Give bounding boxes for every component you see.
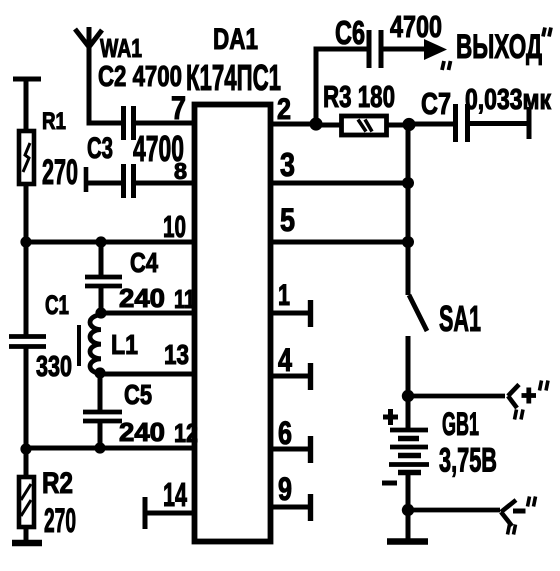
wire pin 13: [100, 372, 196, 377]
wire R2 to ground terminal: [24, 527, 29, 542]
wire branch pin10 to C4: [99, 242, 104, 278]
pin 4 terminator bar: [308, 363, 313, 390]
svg-text:L1: L1: [111, 329, 138, 360]
wire pin 4: [270, 374, 310, 379]
C7 end terminator bar: [527, 107, 532, 139]
capacitor C7: [456, 104, 468, 142]
capacitor C4: [85, 277, 122, 286]
left rail top terminal: [13, 77, 41, 82]
junction C4/L1/pin11: [95, 307, 106, 318]
wire L1 to C5: [98, 373, 103, 413]
svg-text:3: 3: [280, 146, 295, 183]
wire C1 to bottom junction: [24, 348, 29, 479]
svg-text:C3: C3: [87, 132, 113, 165]
wire pin 10 row: [24, 240, 196, 245]
svg-text:R1: R1: [42, 108, 66, 135]
wire tick to C3: [86, 181, 122, 186]
svg-text:ВЫХОД: ВЫХОД: [456, 28, 542, 66]
svg-text:9: 9: [278, 471, 292, 507]
svg-text:0,033мк: 0,033мк: [465, 84, 551, 116]
wire pin 14: [145, 511, 196, 516]
svg-text:6: 6: [278, 415, 292, 451]
capacitor C1: [9, 337, 46, 347]
svg-text:240: 240: [119, 283, 165, 313]
capacitor C3: [124, 164, 134, 198]
svg-text:10: 10: [163, 209, 186, 244]
antenna WA1: [75, 27, 123, 123]
wire junction to C7: [409, 122, 455, 127]
svg-text:GB1: GB1: [442, 406, 479, 442]
wire R3 to C7 junction: [386, 123, 410, 128]
capacitor C6: [369, 30, 381, 68]
svg-text:R3 180: R3 180: [323, 79, 395, 114]
wire C6 to output arrow: [383, 47, 426, 52]
svg-text:C4: C4: [130, 247, 158, 278]
plus terminal label: [522, 388, 537, 404]
capacitor C3 open-end tick: [84, 167, 89, 192]
wire battery to minus junction: [406, 472, 411, 541]
pin 6 terminator bar: [308, 436, 313, 463]
wire junction to R3: [316, 123, 342, 128]
battery GB1: [389, 430, 429, 473]
junction pin5/right rail: [402, 236, 414, 248]
wire to minus terminal: [408, 508, 500, 513]
wire R1 to C1: [24, 184, 29, 338]
svg-text:14: 14: [163, 476, 187, 513]
junction minus output: [402, 504, 414, 516]
wire C7 to end terminal: [469, 121, 529, 126]
svg-text:270: 270: [42, 153, 78, 192]
wire pin 11: [101, 311, 196, 316]
svg-text:13: 13: [164, 339, 189, 370]
wire up to C6: [316, 49, 368, 124]
output high quote: [543, 28, 551, 37]
wire C2 to pin 7: [135, 121, 196, 126]
plus terminal low quote: [515, 410, 524, 420]
plus terminal high quote: [540, 381, 549, 391]
right rail down to switch: [406, 124, 411, 295]
wire C3 to pin 8: [135, 181, 196, 186]
wire pin 12 bottom row: [24, 446, 196, 451]
minus terminal high quote: [528, 497, 536, 507]
junction branch/bottom row: [94, 442, 105, 453]
svg-text:1: 1: [278, 279, 290, 312]
svg-text:5: 5: [280, 202, 295, 238]
switch SA1 blade: [409, 295, 427, 331]
wire switch to battery: [406, 336, 411, 431]
junction rail/bottom row: [20, 443, 31, 454]
resistor R3: [342, 116, 387, 135]
minus terminal low quote: [508, 525, 516, 535]
wire pin 1: [270, 311, 310, 316]
svg-text:DA1: DA1: [213, 23, 258, 56]
wire pin 2: [270, 122, 318, 127]
battery GB1 plus sign: [383, 409, 398, 425]
junction L1/C5/pin13: [94, 367, 105, 378]
wire pin 5: [270, 240, 410, 245]
output arrowhead: [424, 39, 447, 60]
svg-text:4700: 4700: [390, 9, 442, 44]
battery rail bottom terminal: [387, 538, 428, 545]
minus terminal fork: [501, 500, 516, 526]
junction branch/pin10: [95, 236, 106, 247]
minus terminal label: [513, 509, 526, 514]
svg-text:240: 240: [119, 417, 165, 447]
battery GB1 minus sign: [382, 481, 397, 486]
junction pin3/right rail: [402, 177, 414, 189]
svg-text:C5: C5: [124, 379, 152, 410]
svg-text:7: 7: [171, 90, 186, 126]
pin 14 terminator bar: [143, 497, 148, 529]
op-amp / IC DA1 body: [195, 105, 271, 542]
svg-text:WA1: WA1: [100, 33, 142, 63]
wire rail top to R1: [24, 77, 29, 133]
svg-text:330: 330: [36, 351, 72, 383]
svg-text:3,75В: 3,75В: [439, 442, 497, 480]
resistor R1: [19, 131, 34, 184]
junction pin2/C6 branch: [309, 117, 322, 130]
svg-text:C7: C7: [421, 86, 451, 121]
svg-text:C6: C6: [335, 14, 365, 51]
svg-text:8: 8: [174, 158, 187, 184]
wire C5 to bottom row: [98, 421, 103, 450]
pin 9 terminator bar: [308, 494, 313, 521]
wire C4 to pin11 junction: [99, 286, 104, 316]
svg-text:C2 4700: C2 4700: [98, 61, 182, 93]
svg-text:4: 4: [278, 342, 292, 378]
junction rail/pin10: [20, 236, 31, 247]
svg-text:270: 270: [44, 502, 76, 540]
svg-text:C1: C1: [45, 290, 69, 320]
wire to plus terminal: [408, 394, 505, 399]
wire pin 9: [270, 505, 310, 510]
wire pin 6: [270, 447, 310, 452]
svg-text:R2: R2: [42, 467, 73, 500]
capacitor C2: [124, 106, 134, 140]
plus terminal fork: [508, 385, 519, 409]
resistor R2: [19, 477, 34, 527]
capacitor C5: [83, 412, 122, 421]
pin 1 terminator bar: [308, 300, 313, 327]
inductor L1: [90, 315, 101, 373]
left rail bottom terminal: [12, 540, 42, 547]
inductor L1 core: [77, 325, 81, 366]
output low quote: [442, 61, 451, 70]
svg-text:2: 2: [277, 93, 291, 126]
junction plus output: [402, 390, 414, 402]
svg-text:К174ПС1: К174ПС1: [186, 57, 281, 98]
svg-text:SA1: SA1: [439, 298, 481, 339]
junction R3/C7/rail: [402, 118, 415, 131]
wire pin 3: [270, 181, 410, 186]
